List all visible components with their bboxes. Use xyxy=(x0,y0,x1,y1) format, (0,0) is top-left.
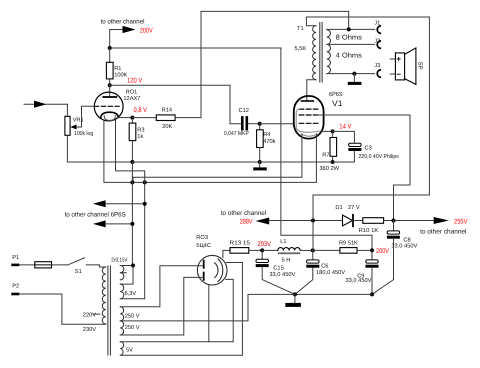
svg-text:5,5K: 5,5K xyxy=(295,46,307,52)
connector J1 xyxy=(377,26,380,33)
resistor R13 xyxy=(230,248,249,254)
capacitor C9 plate plus xyxy=(366,260,378,263)
svg-text:220,0 40V Philips: 220,0 40V Philips xyxy=(359,153,399,160)
wire 6P6S heater pin left xyxy=(133,134,302,182)
resistor R9 xyxy=(340,248,357,254)
T2 winding 6.3V xyxy=(120,284,123,299)
wire fuse to switch xyxy=(52,264,68,266)
T2 winding 250V upper xyxy=(120,307,123,321)
switch S1 lever xyxy=(68,258,85,265)
wire VR1 wiper to 12AX7 grid xyxy=(77,106,95,127)
wire VR1 bottom to ground rail xyxy=(67,135,132,162)
svg-text:to other channel: to other channel xyxy=(101,18,146,25)
wire 6P6S heater pin right xyxy=(104,120,317,182)
transformer T1 core xyxy=(319,23,321,83)
svg-text:to other channel: to other channel xyxy=(221,210,267,217)
svg-text:8 Ohms: 8 Ohms xyxy=(336,35,363,42)
12AX7 cathode arc xyxy=(101,112,119,117)
potentiometer VR1 body xyxy=(65,116,70,135)
wire T1 primary top to B+ feed xyxy=(306,17,429,221)
6P6S plate bar xyxy=(302,100,314,102)
svg-text:R10 1K: R10 1K xyxy=(359,228,379,234)
wire mid node up to 288V node xyxy=(312,221,314,251)
wire W3 top to RO3 plate1 xyxy=(120,266,203,307)
wire R4 bottom lead xyxy=(259,148,261,163)
wire R7 bottom lead xyxy=(332,156,334,162)
capacitor C12 plate right xyxy=(246,117,249,129)
6P6S grid g3 dashes xyxy=(299,122,318,124)
svg-text:27 V: 27 V xyxy=(348,205,360,211)
arrow to other channel 200V xyxy=(123,26,136,33)
junction dot heater rail at bus A xyxy=(130,180,134,184)
wire L1 to mid node xyxy=(300,249,313,251)
svg-text:293V: 293V xyxy=(258,241,272,248)
wire grid node to 6P6S g1 xyxy=(260,123,294,125)
wire R1 bottom lead xyxy=(109,79,111,85)
speaker SP terminal stub lower xyxy=(390,73,395,75)
svg-text:R13 15: R13 15 xyxy=(230,240,251,246)
tube RO3 5Ц4C envelope xyxy=(197,255,227,285)
wire C9 bottom to ground wire xyxy=(371,268,373,295)
T2 winding 250V lower xyxy=(120,321,123,335)
junction dot feedback tap xyxy=(347,27,351,31)
junction dot at R1 top xyxy=(108,46,112,50)
capacitor C15 plate plus xyxy=(256,259,268,262)
wire R3 top lead xyxy=(131,118,133,124)
ground symbol stub at R4 xyxy=(259,162,261,167)
wire arrow to bus A xyxy=(106,223,133,225)
wire 200V rail to screen feed xyxy=(110,47,281,49)
resistor R14 xyxy=(156,115,175,121)
svg-text:4 Ohms: 4 Ohms xyxy=(336,52,363,59)
svg-text:J2: J2 xyxy=(374,39,380,45)
svg-text:100K: 100K xyxy=(114,72,127,78)
wire P2 to primary bottom 230V xyxy=(19,294,106,324)
svg-text:14 V: 14 V xyxy=(339,124,352,131)
wire C3 bottom to ground rail xyxy=(132,151,354,162)
svg-text:VR1: VR1 xyxy=(73,118,84,124)
speaker SP driver rect xyxy=(395,53,404,80)
wire C9 top lead xyxy=(371,250,373,260)
ground symbol bar at R4 xyxy=(253,167,267,170)
capacitor C9 plate minus xyxy=(366,265,379,268)
T2 winding 5V xyxy=(120,342,123,356)
wire T1 primary bottom to 6P6S plate xyxy=(307,80,316,101)
inductor L1 core bar xyxy=(278,252,300,254)
wire C6 bottom to ground node xyxy=(295,268,313,295)
svg-text:220V: 220V xyxy=(83,312,96,318)
junction dot arrow bus B xyxy=(143,202,147,206)
connector J3 xyxy=(377,70,380,77)
svg-text:C15: C15 xyxy=(273,266,283,272)
svg-text:D1: D1 xyxy=(335,205,342,211)
wire 288V line to D1 xyxy=(269,220,342,222)
svg-text:200V: 200V xyxy=(140,27,153,34)
wire C8 top lead xyxy=(393,221,395,231)
capacitor C12 plate left xyxy=(241,117,244,129)
junction dot heater rail at bus B xyxy=(143,180,147,184)
wire R13 to 293V node xyxy=(249,249,262,251)
wire 6P6S g2 to 255V feed xyxy=(318,115,410,221)
wire W2 bottom to heater bus B xyxy=(120,298,144,300)
RO3 filament arc xyxy=(218,259,223,282)
wire 120V plate node to C12 xyxy=(110,85,241,123)
arrow to other channel heater A xyxy=(93,220,106,227)
wire 12AX7 plate lead xyxy=(109,85,111,96)
wire R14 left lead xyxy=(132,117,156,119)
junction dot 200V node xyxy=(370,248,374,252)
svg-text:33.0 450V: 33.0 450V xyxy=(391,244,417,250)
svg-text:20K: 20K xyxy=(162,124,172,130)
svg-text:5V: 5V xyxy=(126,348,133,354)
capacitor C8 plate plus xyxy=(387,231,399,234)
capacitor C8 plate minus xyxy=(387,236,400,239)
junction dot filter mid node xyxy=(311,248,315,252)
junction dot 293V node xyxy=(260,248,264,252)
wire C8 bottom to ground node xyxy=(372,239,394,295)
svg-text:S1: S1 xyxy=(75,269,82,275)
capacitor C6 plate plus xyxy=(307,260,319,263)
svg-text:0,047 MKP: 0,047 MKP xyxy=(224,131,249,137)
svg-text:5 H: 5 H xyxy=(282,258,291,264)
speaker SP cone xyxy=(405,48,416,85)
wire heater bus B down xyxy=(144,182,146,298)
wire W4 bottom to RO3 plate2 xyxy=(120,277,203,335)
speaker SP polarity marks xyxy=(397,57,400,60)
wire R9 to 200V node xyxy=(357,249,372,251)
svg-text:RO1: RO1 xyxy=(126,90,138,96)
arrow to other channel 255V xyxy=(434,217,449,224)
wire 6P6S cathode to 14V node xyxy=(321,130,333,132)
T2 winding 2x3.15V xyxy=(120,266,124,280)
svg-text:P1: P1 xyxy=(12,255,19,261)
svg-text:R9 51K: R9 51K xyxy=(339,241,358,247)
svg-text:to other channel 6P6S: to other channel 6P6S xyxy=(65,211,127,218)
transformer T1 secondary winding xyxy=(327,30,331,74)
svg-text:J1: J1 xyxy=(374,20,380,26)
12AX7 heater oval xyxy=(104,116,115,121)
junction dot secondary ground tap xyxy=(352,72,356,76)
svg-text:to other channel: to other channel xyxy=(420,229,467,236)
wire P1 to fuse xyxy=(19,264,35,266)
junction dot R3 ground rail xyxy=(130,160,134,164)
junction dot plate node 120V xyxy=(108,83,112,87)
svg-text:L1: L1 xyxy=(280,239,286,245)
wire C15 top lead xyxy=(261,250,263,259)
wire RO3 cathode top to R13 xyxy=(223,250,230,257)
capacitor C6 plate minus xyxy=(306,265,319,268)
svg-text:R1: R1 xyxy=(114,66,121,72)
resistor R1 xyxy=(106,62,113,79)
capacitor C3 plate plus xyxy=(349,143,361,146)
svg-text:C3: C3 xyxy=(365,146,372,152)
svg-text:360 2W: 360 2W xyxy=(319,166,339,172)
wire R3 bottom lead xyxy=(131,141,133,162)
svg-text:470k: 470k xyxy=(263,138,275,145)
svg-text:SP: SP xyxy=(417,62,424,70)
svg-text:R7: R7 xyxy=(322,153,329,159)
ground symbol stub PSU xyxy=(294,294,296,303)
svg-text:100k log: 100k log xyxy=(74,130,93,137)
svg-text:1k: 1k xyxy=(137,133,143,140)
svg-text:255V: 255V xyxy=(454,219,468,226)
junction dot 255V node C8 xyxy=(392,219,396,223)
wire 220V tap stub xyxy=(93,313,100,315)
6P6S cathode arc xyxy=(301,134,317,136)
capacitor C15 plate minus xyxy=(256,264,269,267)
wire R4 top lead xyxy=(259,124,261,130)
junction dot arrow bus A xyxy=(130,222,134,226)
transformer T1 primary winding xyxy=(313,26,316,80)
wire 12AX7 heater pin right xyxy=(116,120,145,182)
wire 4-ohm tap to J2 xyxy=(327,43,375,45)
arrow to other channel heater B xyxy=(93,200,106,207)
wire feedback R14 to 8-ohm tap xyxy=(175,11,349,117)
input arrow head xyxy=(34,101,47,108)
wire R10 to 255V arrow xyxy=(384,220,434,222)
inductor L1 xyxy=(278,248,300,251)
svg-text:C12: C12 xyxy=(239,108,249,114)
wire 12AX7 cathode to 0,8V node xyxy=(118,117,132,119)
svg-text:250 V: 250 V xyxy=(125,325,140,331)
svg-text:120 V: 120 V xyxy=(127,78,143,85)
resistor R4 xyxy=(257,130,264,148)
ground symbol bar PSU xyxy=(285,303,301,307)
svg-text:200V: 200V xyxy=(376,248,389,255)
wire RO3 bottom heater pin xyxy=(208,285,210,342)
wire ground link xyxy=(295,293,372,295)
junction dot 288V node xyxy=(311,219,315,223)
wire heater bus A down xyxy=(131,162,133,266)
junction dot R7 ground xyxy=(331,160,335,164)
ground symbol stub secondary xyxy=(353,74,355,82)
svg-text:V1: V1 xyxy=(332,99,343,108)
tube V1 6P6S envelope xyxy=(294,96,324,139)
junction dot C9 ground xyxy=(370,292,374,296)
wire 5V top to RO3 filament bottom xyxy=(120,279,233,341)
wire 200V feeder from top rail to 200V node xyxy=(281,48,372,250)
12AX7 grid dashed line xyxy=(95,105,122,107)
wire mid node to R9 xyxy=(313,249,340,251)
node 200V supply top-left: wire xyxy=(110,30,123,49)
svg-text:12AX7: 12AX7 xyxy=(123,96,140,102)
wire 5V bottom to RO3 filament top xyxy=(120,263,242,356)
wire secondary bottom to J3 xyxy=(327,73,375,75)
wire R1 top lead xyxy=(109,48,111,62)
wire switch to primary top xyxy=(86,265,106,267)
junction dot W1 top xyxy=(131,264,135,268)
6P6S grid g1 dashes xyxy=(299,108,318,110)
wire 8-ohm tap to J1 xyxy=(327,28,375,30)
input arrow line xyxy=(24,103,67,105)
wire C6 top lead xyxy=(312,250,314,260)
diode D1 xyxy=(343,215,353,226)
svg-text:33,0 450V: 33,0 450V xyxy=(269,272,295,278)
capacitor C3 plate minus xyxy=(348,148,361,151)
connector J2 xyxy=(377,41,380,48)
terminal P2 xyxy=(11,293,19,296)
wire C12 to grid node xyxy=(248,123,260,125)
wire arrow to bus B xyxy=(106,203,145,205)
wire C15 bottom to ground node xyxy=(262,267,295,294)
RO3 plate 2 bar xyxy=(203,273,205,280)
wire W1 center tap stub xyxy=(120,272,126,274)
terminal P1 xyxy=(11,264,19,267)
junction dot 14V node xyxy=(331,129,335,133)
svg-text:C6: C6 xyxy=(321,264,328,270)
junction dot R4 top xyxy=(258,122,262,126)
wire W1 bottom / W2 top lead xyxy=(120,266,133,285)
fuse F1 xyxy=(35,262,52,268)
svg-text:250 V: 250 V xyxy=(125,314,140,320)
wire input to VR1 top xyxy=(66,104,68,116)
wire W1 top to heater bus A xyxy=(120,265,133,267)
svg-text:6P6S: 6P6S xyxy=(329,91,343,98)
transformer T2 core xyxy=(107,266,109,355)
wire HV center tap to ground xyxy=(120,294,295,321)
svg-text:C8: C8 xyxy=(403,237,410,243)
junction dot R4 ground xyxy=(258,160,262,164)
wire D1 to R10 xyxy=(353,220,363,222)
svg-text:R14: R14 xyxy=(162,108,172,114)
svg-text:180,0 450V: 180,0 450V xyxy=(316,270,345,276)
svg-text:R3: R3 xyxy=(137,128,144,134)
svg-text:230V: 230V xyxy=(83,327,96,333)
resistor R10 xyxy=(363,218,384,224)
wire 14V node to C3 xyxy=(333,131,355,143)
svg-text:6,3V: 6,3V xyxy=(125,291,137,297)
resistor R7 xyxy=(330,138,337,157)
svg-text:288V: 288V xyxy=(240,218,253,225)
svg-text:5Ц4C: 5Ц4C xyxy=(196,243,211,249)
resistor R3 xyxy=(129,123,136,141)
svg-text:R4: R4 xyxy=(263,132,270,138)
VR1 wiper arrow xyxy=(70,125,76,130)
svg-text:RO3: RO3 xyxy=(196,235,208,241)
RO3 plate 1 bar xyxy=(203,261,205,268)
junction dot 0,8V node xyxy=(130,116,134,120)
svg-text:0,8 V: 0,8 V xyxy=(134,107,148,114)
RO3 filament arc inner xyxy=(215,263,218,278)
speaker SP terminal stub upper xyxy=(390,58,395,60)
svg-text:33,0 450V: 33,0 450V xyxy=(346,278,372,284)
svg-text:2x3,15V: 2x3,15V xyxy=(111,257,127,263)
svg-text:T1: T1 xyxy=(297,26,304,32)
12AX7 plate bar xyxy=(103,96,116,98)
wire R7 top lead xyxy=(332,131,334,137)
6P6S grid g2 dashes xyxy=(299,114,318,116)
transformer T2 primary winding xyxy=(102,267,106,324)
wire 293V node to L1 xyxy=(262,249,278,251)
tube RO1 12AX7 envelope xyxy=(94,92,123,121)
svg-text:P2: P2 xyxy=(12,284,19,290)
ground symbol bar secondary xyxy=(348,82,362,85)
junction dot PSU ground node xyxy=(293,292,297,296)
arrow to other channel 288V xyxy=(256,218,270,225)
6P6S beam plate curve xyxy=(296,109,322,132)
svg-text:J3: J3 xyxy=(374,63,380,69)
